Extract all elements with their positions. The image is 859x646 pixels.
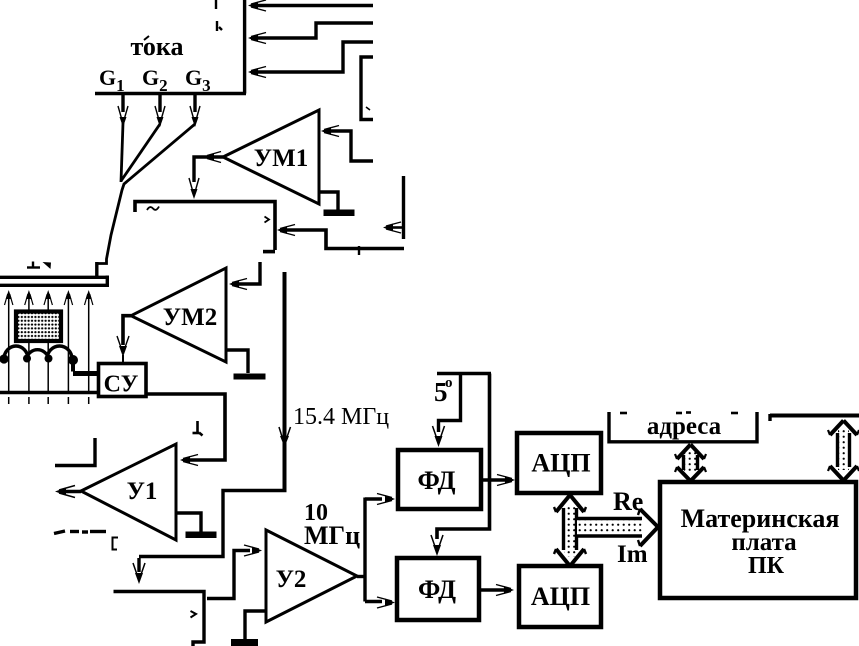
arrow into box2 right edge [277,225,295,236]
pickup coil [4,346,72,359]
УМ1 ground bar [324,210,355,217]
box2 (modulator) top/left/right edges [135,202,275,252]
У2 output splitter bus [357,575,365,578]
УМ1 ground stub [319,192,338,210]
down arrow to mixer bus [133,558,145,584]
stub above bar [95,262,98,277]
svg-text:СУ: СУ [104,372,139,398]
G2 arrow head [155,106,165,127]
СУ box [99,364,147,397]
G1 wire stub [121,94,124,112]
arrow into УМ2 right edge [229,279,247,290]
G3 wire stub [193,94,196,112]
wire from cut box to У2 [207,551,250,599]
chevron mark in box2 [265,217,270,223]
G3 arrow head [190,106,200,127]
УМ2 ground stub [226,350,248,373]
small left arrow on fragment [383,222,403,233]
G1 arrow head [118,106,128,127]
arrow head wire2 [248,33,266,44]
wire into box right edge top [252,4,373,7]
wire 15.4 down to У2 splitter [139,491,287,557]
wire fragment near У1 top-left [55,438,95,466]
partial label 4 МГц (clipped) [54,531,106,534]
bus top-right to motherboard (dotted double arrow) [828,421,859,481]
УМ1 output mid-wire arrow [204,152,221,163]
coil node dots [0,354,9,363]
svg-text:ПК: ПК [748,553,785,579]
glyph д fragment [193,421,203,436]
ФД2 output wire [479,588,505,591]
motherboard box [660,482,856,598]
breve mark over label [144,36,149,40]
15.4 arrow head [279,427,291,447]
dashed marks inside current source box [216,0,222,31]
field line 3 [44,290,52,404]
bus адреса-motherboard (dotted double arrow) [675,445,706,482]
svg-text:адреса: адреса [647,413,722,440]
5 deg phase wire zigzag [437,372,491,375]
tilde mark in box2 [147,207,159,211]
bottom bus line and cut box [114,592,205,646]
svg-text:Re: Re [613,487,643,516]
У2 ground stub [245,611,266,639]
sample box (dotted) [16,312,61,342]
arrow head wire1 [248,0,266,11]
op-amp УМ2 [131,268,226,362]
svg-text:МГц: МГц [304,521,360,550]
СУ output wire down to У1 [146,394,225,460]
svg-text:тока: тока [130,32,183,61]
junction tick [358,246,360,255]
wire 3 into box [252,42,373,72]
probe plate double bar [0,276,108,288]
broken top edge marks [620,411,738,414]
reference vertical wire to ФД2 [437,374,490,540]
address box адреса [609,412,757,442]
arrow into У2 input [244,545,262,556]
field line 5 [85,290,93,404]
У1 ground stub [176,513,201,532]
svg-text:УМ1: УМ1 [254,145,308,172]
op-amp У2 [266,530,357,622]
УМ2 output wire to СУ [123,316,131,345]
У1 output arrow to left [55,486,81,498]
svg-text:15.4 МГц: 15.4 МГц [293,404,389,430]
УМ1 output wire to box2 [194,157,223,182]
arrow into ФД1 top [433,426,445,447]
ФД1 output wire [481,478,506,481]
arrow into УМ1 right edge [321,126,339,137]
partial text marks above bar [27,262,40,268]
G2 wire converging [121,124,160,181]
op-amp УМ1 [223,110,319,204]
G2 wire stub [158,94,161,112]
УМ2 ground bar [234,374,266,380]
УМ1 output arrow head [189,178,199,199]
svg-text:o: o [445,375,453,391]
op-amp У1 [81,444,176,540]
15.4 MHz line [283,272,287,492]
phase detector ФД2 [397,558,479,620]
УМ2 output arrow head [117,336,129,363]
svg-text:ФД: ФД [418,575,456,604]
field line 2 [25,290,33,404]
svg-text:ФД: ФД [418,466,456,495]
coil output wire to СУ [71,360,75,372]
svg-text:Im: Im [617,541,648,568]
svg-text:УМ2: УМ2 [163,304,217,331]
small mark in bracket [366,107,370,110]
data bus to motherboard (dotted arrow right) [577,509,658,546]
bracket fragment [113,538,119,550]
current source box (тока) bottom and right edges [95,0,246,94]
field line 4 [64,290,72,404]
bottom line under probe [0,391,99,395]
G3 wire converging, common wire to probe [97,124,195,264]
ADC АЦП1 [517,433,601,493]
svg-text:У2: У2 [276,566,307,593]
top right wire [770,414,859,418]
splitter top branch to ФД1 [365,497,382,500]
vertical wire fragment right [402,176,405,239]
arrow into У1 right edge [180,455,198,466]
svg-text:плата: плата [731,529,797,556]
svg-text:АЦП: АЦП [531,582,590,611]
ADC АЦП2 [519,566,601,627]
arrow into ФД2 left [377,597,395,608]
arrow into АЦП2 [496,585,514,596]
wire to УМ1 right edge [329,131,373,161]
arrow into ФД1 left [377,494,395,505]
arrow head wire3 [248,67,266,78]
arrow into АЦП1 [497,475,515,486]
arrow into ФД2 top [431,535,443,556]
chevron mark in cut box [191,611,197,618]
svg-text:АЦП: АЦП [531,449,590,478]
svg-text:У1: У1 [127,478,158,505]
field line 1 with up arrow [5,290,13,404]
У1 ground bar [186,532,217,539]
G1 wire to junction [121,123,123,182]
wire 2 into box [252,23,373,38]
splitter bottom branch to ФД2 [365,600,382,603]
У2 ground bar [231,639,258,646]
data bus АЦП1-АЦП2 (dotted double arrow) [554,495,586,566]
wire into УМ2 right edge [234,262,260,284]
cut box bracket at right [361,57,373,120]
zigzag wire to box2 [285,230,404,249]
phase detector ФД1 [398,450,481,509]
